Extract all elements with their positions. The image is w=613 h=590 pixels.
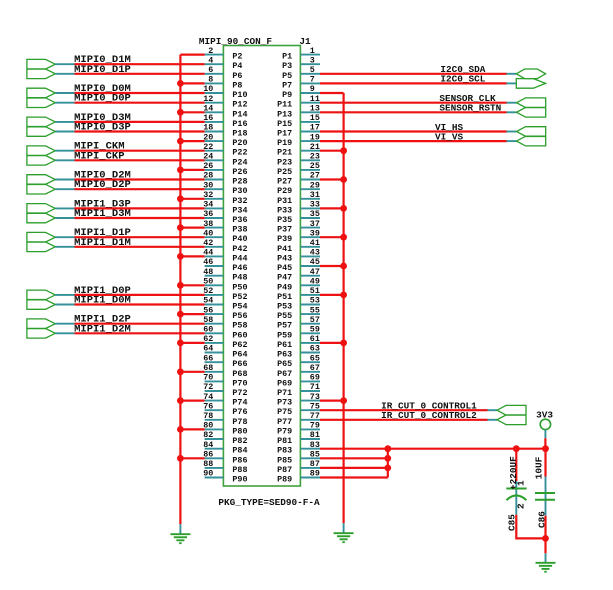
svg-text:P42: P42 xyxy=(232,244,247,254)
ground stem C86 xyxy=(545,553,547,563)
svg-text:67: 67 xyxy=(310,363,320,373)
wire SENSOR_CLK xyxy=(320,102,507,104)
wire I2C0_SDA xyxy=(320,73,507,75)
pin stub P1 xyxy=(300,54,320,56)
pin wire MIPI0_D0P xyxy=(55,102,74,104)
wire MIPI_CKM xyxy=(75,150,205,152)
svg-text:P54: P54 xyxy=(232,302,247,312)
wire MIPI1_D0P xyxy=(75,294,205,296)
pin wire VI_VS xyxy=(507,140,517,142)
connector J1 body xyxy=(223,46,300,487)
pin stub P20 xyxy=(205,140,224,142)
pin stub P11 xyxy=(300,102,320,104)
svg-text:25: 25 xyxy=(310,161,320,171)
svg-text:P71: P71 xyxy=(277,388,292,398)
svg-text:26: 26 xyxy=(203,161,213,171)
svg-text:P88: P88 xyxy=(232,465,247,475)
svg-text:10UF: 10UF xyxy=(534,456,545,479)
svg-text:15: 15 xyxy=(310,113,320,123)
pin stub P32 xyxy=(205,198,224,200)
wire 3V3 pin 83 xyxy=(320,448,546,450)
pin stub P89 xyxy=(300,477,320,479)
svg-text:32: 32 xyxy=(203,190,213,200)
svg-text:P6: P6 xyxy=(232,71,242,81)
svg-text:10: 10 xyxy=(203,84,213,94)
svg-text:71: 71 xyxy=(310,382,320,392)
pin stub P55 xyxy=(300,313,320,315)
svg-text:74: 74 xyxy=(203,392,213,402)
junction GND pin 45 xyxy=(340,263,347,270)
svg-text:P60: P60 xyxy=(232,330,247,340)
svg-text:P8: P8 xyxy=(232,80,242,90)
ground left xyxy=(170,534,190,543)
junction GND pin 74 xyxy=(177,397,184,404)
svg-text:55: 55 xyxy=(310,305,320,315)
svg-text:1: 1 xyxy=(310,46,315,56)
junction GND pin 80 xyxy=(177,426,184,433)
junction GND pin 68 xyxy=(177,368,184,375)
svg-text:52: 52 xyxy=(203,286,213,296)
pin wire MIPI0_D2M xyxy=(55,179,74,181)
wire GND pin 50 xyxy=(180,284,204,286)
svg-text:PKG_TYPE=SED90-F-A: PKG_TYPE=SED90-F-A xyxy=(218,497,320,508)
svg-text:P66: P66 xyxy=(232,359,247,369)
svg-text:P36: P36 xyxy=(232,215,247,225)
pin stub P75 xyxy=(300,409,320,411)
svg-text:P68: P68 xyxy=(232,369,247,379)
wire MIPI1_D3P xyxy=(75,207,205,209)
wire MIPI0_D1P xyxy=(75,73,205,75)
svg-text:66: 66 xyxy=(203,353,213,363)
svg-text:41: 41 xyxy=(310,238,320,248)
svg-text:P10: P10 xyxy=(232,90,247,100)
svg-text:MIPI0_D1P: MIPI0_D1P xyxy=(74,64,131,76)
svg-text:MIPI_CKP: MIPI_CKP xyxy=(74,150,124,162)
svg-text:33: 33 xyxy=(310,200,320,210)
wire GND pin 38 xyxy=(180,227,204,229)
pin wire 3V3 xyxy=(544,430,546,439)
pin stub P6 xyxy=(205,73,224,75)
pin stub P52 xyxy=(205,294,224,296)
wire GND pin 56 xyxy=(180,313,204,315)
svg-text:SENSOR_RSTN: SENSOR_RSTN xyxy=(439,103,501,114)
svg-text:P74: P74 xyxy=(232,398,247,408)
port MIPI_CKM/MIPI_CKP xyxy=(27,146,55,165)
svg-text:88: 88 xyxy=(203,459,213,469)
pin stub P21 xyxy=(300,150,320,152)
svg-text:P57: P57 xyxy=(277,321,292,331)
pin stub P12 xyxy=(205,102,224,104)
wire MIPI0_D0P xyxy=(75,102,205,104)
pin stub P67 xyxy=(300,371,320,373)
svg-text:P25: P25 xyxy=(277,167,292,177)
pin stub P50 xyxy=(205,284,224,286)
pin wire I2C0_SDA xyxy=(507,73,517,75)
svg-text:17: 17 xyxy=(310,123,320,133)
port I2C0_SCL (output) xyxy=(516,79,545,89)
junction GND pin 50 xyxy=(177,282,184,289)
pin wire MIPI1_D0M xyxy=(55,304,74,306)
svg-text:23: 23 xyxy=(310,152,320,162)
svg-text:81: 81 xyxy=(310,430,320,440)
svg-text:59: 59 xyxy=(310,325,320,335)
port MIPI1_D3P/MIPI1_D3M xyxy=(27,204,55,223)
svg-text:P45: P45 xyxy=(277,263,292,273)
svg-text:42: 42 xyxy=(203,238,213,248)
wire 3V3 pin 87 xyxy=(320,467,388,469)
svg-text:P12: P12 xyxy=(232,100,247,110)
svg-text:P55: P55 xyxy=(277,311,292,321)
svg-text:82: 82 xyxy=(203,430,213,440)
wire GND pin 2 top xyxy=(180,53,204,55)
pin stub P65 xyxy=(300,361,320,363)
wire MIPI0_D3P xyxy=(75,130,205,132)
wire GND pin 80 xyxy=(180,428,204,430)
pin wire VI_HS xyxy=(507,131,517,133)
wire GND pin 61 xyxy=(320,342,344,344)
svg-text:72: 72 xyxy=(203,382,213,392)
svg-text:P14: P14 xyxy=(232,109,247,119)
wire C86 to ground xyxy=(544,516,546,554)
wire GND pin 14 xyxy=(180,111,204,113)
pin stub P37 xyxy=(300,227,320,229)
svg-text:P87: P87 xyxy=(277,465,292,475)
wire MIPI0_D1M xyxy=(75,63,205,65)
svg-text:P70: P70 xyxy=(232,378,247,388)
pin stub P15 xyxy=(300,121,320,123)
svg-text:86: 86 xyxy=(203,450,213,460)
junction GND pin 73 xyxy=(340,397,347,404)
svg-text:P20: P20 xyxy=(232,138,247,148)
svg-text:90: 90 xyxy=(203,469,213,479)
port MIPI0_D0M/MIPI0_D0P xyxy=(27,88,55,107)
pin stub P64 xyxy=(205,352,224,354)
svg-text:62: 62 xyxy=(203,334,213,344)
svg-text:7: 7 xyxy=(310,75,315,85)
pin stub P38 xyxy=(205,227,224,229)
junction GND pin 61 xyxy=(340,340,347,347)
pin wire SENSOR_CLK xyxy=(507,102,517,104)
wire C86 top xyxy=(544,449,546,477)
junction GND pin 62 xyxy=(177,340,184,347)
wire 3V3 pin 89 xyxy=(320,476,388,478)
svg-text:30: 30 xyxy=(203,180,213,190)
pin wire MIPI0_D0M xyxy=(55,92,74,94)
svg-text:P15: P15 xyxy=(277,119,292,129)
svg-text:P4: P4 xyxy=(232,61,242,71)
junction GND pin 32 xyxy=(177,195,184,202)
svg-text:P28: P28 xyxy=(232,177,247,187)
svg-text:31: 31 xyxy=(310,190,320,200)
svg-text:P13: P13 xyxy=(277,109,292,119)
svg-text:P18: P18 xyxy=(232,129,247,139)
svg-text:MIPI1_D2M: MIPI1_D2M xyxy=(74,323,131,335)
pin stub P44 xyxy=(205,255,224,257)
svg-text:P64: P64 xyxy=(232,350,247,360)
svg-text:27: 27 xyxy=(310,171,320,181)
pin stub P82 xyxy=(205,438,224,440)
wire GND pin 8 xyxy=(180,82,204,84)
svg-text:P29: P29 xyxy=(277,186,292,196)
svg-text:P77: P77 xyxy=(277,417,292,427)
svg-text:P39: P39 xyxy=(277,234,292,244)
svg-text:P3: P3 xyxy=(282,61,292,71)
pin stub P33 xyxy=(300,207,320,209)
pin stub P57 xyxy=(300,323,320,325)
junction C85 top xyxy=(513,445,520,452)
junction 3V3 pin 87 xyxy=(384,465,391,472)
svg-text:3V3: 3V3 xyxy=(536,410,553,421)
svg-text:P85: P85 xyxy=(277,455,292,465)
svg-text:44: 44 xyxy=(203,248,213,258)
wire MIPI0_D2P xyxy=(75,188,205,190)
port I2C0_SDA (bidirectional) xyxy=(516,69,545,79)
svg-text:70: 70 xyxy=(203,373,213,383)
pin stub P85 xyxy=(300,457,320,459)
wire GND pin 62 xyxy=(180,342,204,344)
port VI_HS/VI_VS xyxy=(517,127,546,146)
pin stub P81 xyxy=(300,438,320,440)
svg-text:P52: P52 xyxy=(232,292,247,302)
pin stub P7 xyxy=(300,82,320,84)
svg-text:P83: P83 xyxy=(277,446,292,456)
svg-text:P78: P78 xyxy=(232,417,247,427)
svg-text:I2C0_SCL: I2C0_SCL xyxy=(440,74,485,85)
pin stub P16 xyxy=(205,121,224,123)
svg-text:28: 28 xyxy=(203,171,213,181)
svg-text:64: 64 xyxy=(203,344,213,354)
svg-text:49: 49 xyxy=(310,277,320,287)
pin stub P60 xyxy=(205,332,224,334)
pin stub P9 xyxy=(300,92,320,94)
svg-text:P46: P46 xyxy=(232,263,247,273)
svg-text:69: 69 xyxy=(310,373,320,383)
pin wire MIPI1_D1M xyxy=(55,246,74,248)
pin wire IR_CUT_0_CONTROL2 xyxy=(488,419,498,421)
port MIPI1_D2P/MIPI1_D2M xyxy=(27,319,55,338)
pin wire MIPI1_D3M xyxy=(55,217,74,219)
svg-text:P19: P19 xyxy=(277,138,292,148)
wire GND pin 27 xyxy=(320,178,344,180)
svg-text:P73: P73 xyxy=(277,398,292,408)
pin stub P8 xyxy=(205,82,224,84)
pin stub P26 xyxy=(205,169,224,171)
svg-text:47: 47 xyxy=(310,267,320,277)
svg-text:P65: P65 xyxy=(277,359,292,369)
pin stub P29 xyxy=(300,188,320,190)
pin stub P47 xyxy=(300,275,320,277)
pin stub P45 xyxy=(300,265,320,267)
wire MIPI1_D2P xyxy=(75,323,205,325)
port IR_CUT_0_CONTROL1/IR_CUT_0_CONTROL2 xyxy=(497,405,526,424)
wire GND pin 20 xyxy=(180,140,204,142)
svg-text:2: 2 xyxy=(208,46,213,56)
svg-text:36: 36 xyxy=(203,209,213,219)
capacitor C86 plate top xyxy=(535,492,555,494)
pin stub P41 xyxy=(300,246,320,248)
junction 3V3 rail xyxy=(542,445,549,452)
svg-text:P26: P26 xyxy=(232,167,247,177)
port MIPI1_D0P/MIPI1_D0M xyxy=(27,290,55,309)
svg-text:3: 3 xyxy=(310,55,315,65)
svg-text:P7: P7 xyxy=(282,80,292,90)
pin stub P36 xyxy=(205,217,224,219)
svg-text:77: 77 xyxy=(310,411,320,421)
svg-text:P75: P75 xyxy=(277,407,292,417)
pin wire IR_CUT_0_CONTROL1 xyxy=(488,409,498,411)
svg-text:9: 9 xyxy=(310,84,315,94)
svg-text:29: 29 xyxy=(310,180,320,190)
pin stub P83 xyxy=(300,448,320,450)
junction GND pin 33 xyxy=(340,205,347,212)
svg-text:54: 54 xyxy=(203,296,213,306)
pin stub P39 xyxy=(300,236,320,238)
svg-text:P84: P84 xyxy=(232,446,247,456)
pin wire MIPI0_D2P xyxy=(55,188,74,190)
svg-text:11: 11 xyxy=(310,94,320,104)
svg-text:MIPI0_D3P: MIPI0_D3P xyxy=(74,122,131,134)
svg-text:39: 39 xyxy=(310,228,320,238)
wire SENSOR_RSTN xyxy=(320,111,507,113)
svg-text:83: 83 xyxy=(310,440,320,450)
svg-text:73: 73 xyxy=(310,392,320,402)
svg-text:P27: P27 xyxy=(277,177,292,187)
svg-text:P9: P9 xyxy=(282,90,292,100)
svg-text:75: 75 xyxy=(310,401,320,411)
svg-text:43: 43 xyxy=(310,248,320,258)
pin stub P59 xyxy=(300,332,320,334)
pin stub P17 xyxy=(300,131,320,133)
svg-text:P50: P50 xyxy=(232,282,247,292)
svg-text:P61: P61 xyxy=(277,340,292,350)
svg-text:MIPI1_D1M: MIPI1_D1M xyxy=(74,237,131,249)
pin wire MIPI1_D0P xyxy=(55,294,74,296)
pin wire C85 xyxy=(515,481,517,515)
svg-text:53: 53 xyxy=(310,296,320,306)
pin stub P87 xyxy=(300,467,320,469)
port MIPI0_D2M/MIPI0_D2P xyxy=(27,175,55,194)
pin stub P68 xyxy=(205,371,224,373)
capacitor C85 plate + xyxy=(506,488,526,490)
svg-text:50: 50 xyxy=(203,277,213,287)
pin wire MIPI1_D1P xyxy=(55,236,74,238)
pin stub P22 xyxy=(205,150,224,152)
svg-text:16: 16 xyxy=(203,113,213,123)
svg-text:63: 63 xyxy=(310,344,320,354)
svg-text:P17: P17 xyxy=(277,129,292,139)
pin stub P61 xyxy=(300,342,320,344)
svg-text:87: 87 xyxy=(310,459,320,469)
svg-text:P32: P32 xyxy=(232,196,247,206)
pin stub P66 xyxy=(205,361,224,363)
svg-text:P51: P51 xyxy=(277,292,292,302)
power symbol 3V3 xyxy=(540,419,550,429)
pin wire MIPI0_D1P xyxy=(55,73,74,75)
svg-text:46: 46 xyxy=(203,257,213,267)
wire GND pin 32 xyxy=(180,198,204,200)
svg-text:P48: P48 xyxy=(232,273,247,283)
wire MIPI0_D2M xyxy=(75,178,205,180)
pin stub P84 xyxy=(205,448,224,450)
svg-text:20: 20 xyxy=(203,132,213,142)
wire GND pin 86 xyxy=(180,457,204,459)
pin stub P78 xyxy=(205,419,224,421)
svg-text:18: 18 xyxy=(203,123,213,133)
pin wire MIPI0_D3M xyxy=(55,121,74,123)
pin stub P2 xyxy=(205,54,224,56)
svg-text:6: 6 xyxy=(208,65,213,75)
wire MIPI1_D2M xyxy=(75,332,205,334)
svg-text:78: 78 xyxy=(203,411,213,421)
svg-text:13: 13 xyxy=(310,104,320,114)
pin stub P40 xyxy=(205,236,224,238)
junction GND pin 51 xyxy=(340,292,347,299)
svg-text:21: 21 xyxy=(310,142,320,152)
svg-text:P16: P16 xyxy=(232,119,247,129)
pin stub P88 xyxy=(205,467,224,469)
pin wire MIPI1_D2M xyxy=(55,332,74,334)
pin wire SENSOR_RSTN xyxy=(507,111,517,113)
junction GND pin 14 xyxy=(177,109,184,116)
junction GND pin 56 xyxy=(177,311,184,318)
ground stem right xyxy=(343,523,345,533)
svg-text:1: 1 xyxy=(515,480,526,486)
svg-text:P62: P62 xyxy=(232,340,247,350)
wire GND pin 39 xyxy=(320,236,344,238)
pin wire MIPI1_D3P xyxy=(55,207,74,209)
pin stub P23 xyxy=(300,159,320,161)
pin stub P54 xyxy=(205,304,224,306)
svg-text:P2: P2 xyxy=(232,52,242,62)
pin stub P72 xyxy=(205,390,224,392)
wire GND pin 9 xyxy=(320,92,344,94)
pin stub P3 xyxy=(300,63,320,65)
pin stub P73 xyxy=(300,400,320,402)
svg-text:P44: P44 xyxy=(232,253,247,263)
svg-text:5: 5 xyxy=(310,65,315,75)
svg-text:P31: P31 xyxy=(277,196,292,206)
wire GND pin 33 xyxy=(320,207,344,209)
junction GND pin 26 xyxy=(177,167,184,174)
pin stub P31 xyxy=(300,198,320,200)
pin wire MIPI1_D2P xyxy=(55,323,74,325)
pin stub P10 xyxy=(205,92,224,94)
wire MIPI1_D1P xyxy=(75,236,205,238)
svg-text:P37: P37 xyxy=(277,225,292,235)
ground C86 xyxy=(536,563,556,572)
capacitor C85 curved plate xyxy=(506,495,526,500)
pin stub P56 xyxy=(205,313,224,315)
pin stub P80 xyxy=(205,428,224,430)
svg-text:VI_VS: VI_VS xyxy=(435,131,464,142)
pin wire MIPI0_D3P xyxy=(55,131,74,133)
junction GND pin 38 xyxy=(177,224,184,231)
svg-text:P86: P86 xyxy=(232,455,247,465)
svg-text:P82: P82 xyxy=(232,436,247,446)
pin stub P76 xyxy=(205,409,224,411)
svg-text:P30: P30 xyxy=(232,186,247,196)
svg-text:P23: P23 xyxy=(277,157,292,167)
svg-text:35: 35 xyxy=(310,209,320,219)
ground right xyxy=(334,533,354,542)
wire MIPI0_D3M xyxy=(75,121,205,123)
junction 3V3 pin 85 xyxy=(384,455,391,462)
junction 3V3 pin 83 xyxy=(384,445,391,452)
junction GND pin 20 xyxy=(177,138,184,145)
svg-text:P41: P41 xyxy=(277,244,292,254)
svg-text:P63: P63 xyxy=(277,350,292,360)
svg-text:P38: P38 xyxy=(232,225,247,235)
